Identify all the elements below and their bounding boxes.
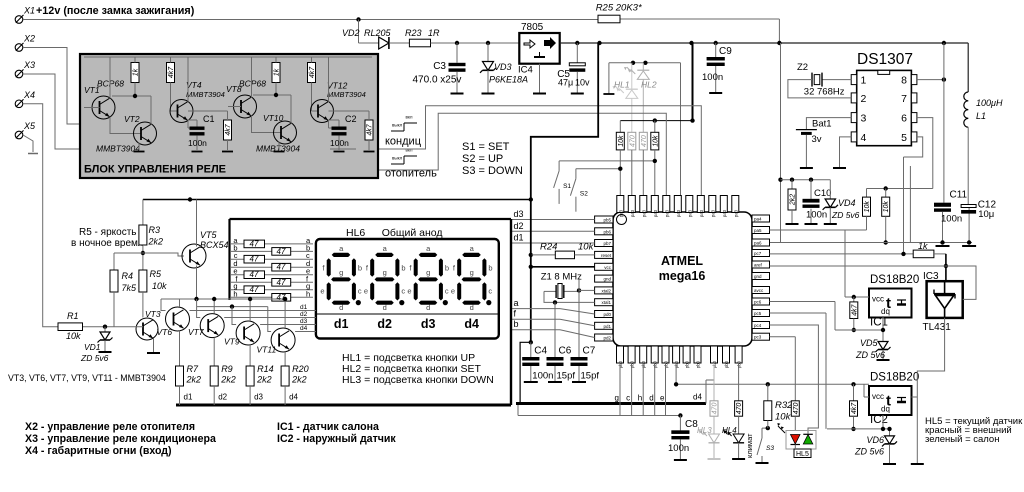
svg-text:C3: C3 bbox=[433, 61, 446, 72]
svg-text:vcc: vcc bbox=[604, 265, 612, 270]
svg-text:IC2: IC2 bbox=[870, 414, 888, 426]
svg-text:h: h bbox=[233, 289, 237, 298]
svg-text:S1: S1 bbox=[563, 183, 571, 190]
svg-text:10k: 10k bbox=[864, 201, 871, 213]
svg-text:10k: 10k bbox=[618, 135, 625, 147]
svg-text:pa3: pa3 bbox=[618, 209, 623, 217]
svg-text:1k: 1k bbox=[274, 68, 281, 76]
svg-text:d1: d1 bbox=[300, 304, 308, 311]
svg-text:кондиц: кондиц bbox=[385, 136, 422, 148]
svg-text:5: 5 bbox=[901, 132, 907, 144]
svg-text:g: g bbox=[383, 268, 387, 277]
svg-text:47: 47 bbox=[250, 270, 259, 279]
svg-text:VT7: VT7 bbox=[188, 327, 204, 337]
svg-text:Bat1: Bat1 bbox=[812, 119, 832, 130]
svg-text:VD6: VD6 bbox=[866, 435, 884, 445]
svg-text:10k: 10k bbox=[775, 412, 792, 423]
svg-text:R25 20K3*: R25 20K3* bbox=[596, 3, 642, 14]
svg-text:BCP68: BCP68 bbox=[239, 79, 266, 89]
svg-text:HL2: HL2 bbox=[641, 80, 657, 90]
svg-text:2k2: 2k2 bbox=[291, 375, 307, 385]
svg-text:e: e bbox=[660, 394, 665, 403]
svg-text:100μH: 100μH bbox=[976, 98, 1003, 108]
svg-text:VT6: VT6 bbox=[157, 327, 173, 337]
svg-text:R7: R7 bbox=[187, 364, 199, 374]
svg-text:3: 3 bbox=[861, 113, 867, 125]
svg-text:470.0 x25v: 470.0 x25v bbox=[413, 75, 462, 86]
svg-text:MMBT3904: MMBT3904 bbox=[186, 90, 225, 99]
svg-text:R32: R32 bbox=[775, 400, 793, 411]
svg-text:ZD 5v6: ZD 5v6 bbox=[831, 210, 860, 220]
svg-text:VT10: VT10 bbox=[263, 113, 284, 123]
svg-text:3v: 3v bbox=[812, 134, 822, 145]
svg-text:R24: R24 bbox=[540, 242, 557, 253]
svg-text:IC2 - наружный датчик: IC2 - наружный датчик bbox=[277, 433, 396, 445]
svg-text:g: g bbox=[339, 268, 343, 277]
svg-text:выкл: выкл bbox=[392, 156, 403, 161]
svg-text:IC1 - датчик салона: IC1 - датчик салона bbox=[277, 421, 379, 433]
svg-text:1R: 1R bbox=[428, 28, 440, 38]
svg-text:pa3: pa3 bbox=[733, 209, 738, 217]
svg-text:gnd: gnd bbox=[603, 277, 611, 282]
svg-text:C7: C7 bbox=[583, 346, 596, 357]
svg-text:6: 6 bbox=[901, 113, 907, 125]
svg-text:pa3: pa3 bbox=[699, 209, 704, 217]
svg-text:xtal2: xtal2 bbox=[601, 288, 611, 293]
svg-text:pc4: pc4 bbox=[754, 323, 762, 328]
svg-text:b: b bbox=[514, 319, 519, 329]
svg-text:HL3: HL3 bbox=[697, 426, 712, 435]
svg-text:Z2: Z2 bbox=[797, 62, 808, 73]
svg-text:d: d bbox=[383, 303, 387, 312]
svg-text:d3: d3 bbox=[254, 393, 263, 402]
svg-text:47: 47 bbox=[277, 278, 286, 287]
svg-text:pc7: pc7 bbox=[754, 251, 762, 256]
svg-text:VD4: VD4 bbox=[838, 198, 856, 208]
svg-text:VT9: VT9 bbox=[224, 337, 240, 347]
svg-text:C6: C6 bbox=[559, 346, 572, 357]
svg-text:d2: d2 bbox=[218, 393, 227, 402]
svg-text:4k7: 4k7 bbox=[851, 303, 858, 315]
svg-text:4k7: 4k7 bbox=[168, 66, 175, 78]
svg-text:R14: R14 bbox=[257, 364, 274, 374]
svg-text:100n: 100n bbox=[668, 443, 689, 454]
svg-text:L1: L1 bbox=[976, 111, 986, 121]
svg-text:в ночное время: в ночное время bbox=[71, 238, 143, 249]
svg-text:вкл: вкл bbox=[406, 115, 413, 120]
svg-text:e: e bbox=[451, 287, 455, 296]
svg-text:pd0: pd0 bbox=[603, 312, 611, 317]
svg-text:dq: dq bbox=[881, 405, 890, 414]
svg-text:g: g bbox=[426, 268, 430, 277]
svg-text:15pf: 15pf bbox=[557, 371, 576, 382]
svg-text:pa3: pa3 bbox=[664, 209, 669, 217]
svg-text:S1 = SET: S1 = SET bbox=[462, 141, 510, 153]
svg-text:VD2: VD2 bbox=[342, 28, 360, 38]
svg-text:47: 47 bbox=[250, 255, 259, 264]
svg-text:BCP68: BCP68 bbox=[97, 79, 124, 89]
svg-text:pb0: pb0 bbox=[685, 360, 690, 368]
svg-text:ZD 5v6: ZD 5v6 bbox=[854, 447, 884, 457]
svg-text:R4: R4 bbox=[122, 271, 134, 281]
svg-text:10k: 10k bbox=[66, 331, 81, 341]
svg-text:DS18B20: DS18B20 bbox=[870, 372, 919, 384]
svg-text:d: d bbox=[426, 303, 430, 312]
svg-text:47: 47 bbox=[250, 285, 259, 294]
svg-text:VT11: VT11 bbox=[257, 345, 277, 355]
svg-text:4k7: 4k7 bbox=[367, 123, 374, 135]
svg-text:aref: aref bbox=[754, 263, 763, 268]
svg-text:X3: X3 bbox=[23, 60, 35, 70]
svg-text:S3 = DOWN: S3 = DOWN bbox=[462, 165, 523, 177]
svg-text:pa3: pa3 bbox=[641, 209, 646, 217]
svg-text:2k2: 2k2 bbox=[256, 375, 272, 385]
svg-text:R5: R5 bbox=[150, 269, 162, 279]
svg-text:e: e bbox=[320, 287, 324, 296]
svg-text:10k: 10k bbox=[652, 135, 659, 147]
svg-text:vcc: vcc bbox=[872, 392, 884, 401]
svg-text:ZD 5v6: ZD 5v6 bbox=[855, 350, 885, 360]
svg-text:e: e bbox=[407, 287, 411, 296]
svg-text:d: d bbox=[470, 303, 474, 312]
svg-text:47: 47 bbox=[277, 263, 286, 272]
svg-text:d2: d2 bbox=[514, 221, 524, 231]
svg-text:2k2: 2k2 bbox=[220, 375, 236, 385]
svg-text:mega16: mega16 bbox=[659, 269, 706, 283]
svg-text:VD1: VD1 bbox=[84, 342, 101, 352]
svg-text:Z1 8 MHz: Z1 8 MHz bbox=[541, 272, 582, 283]
svg-text:R3: R3 bbox=[149, 225, 161, 235]
svg-text:c: c bbox=[626, 394, 630, 403]
svg-text:d: d bbox=[649, 394, 653, 403]
svg-text:b: b bbox=[358, 264, 362, 273]
svg-text:b: b bbox=[401, 264, 405, 273]
svg-text:VT12: VT12 bbox=[327, 81, 348, 91]
svg-text:c: c bbox=[401, 287, 405, 296]
svg-text:15pf: 15pf bbox=[581, 371, 600, 382]
svg-text:C1: C1 bbox=[203, 114, 215, 124]
svg-text:2k2: 2k2 bbox=[148, 237, 164, 247]
svg-text:pa4: pa4 bbox=[754, 217, 762, 222]
svg-text:pd1: pd1 bbox=[603, 324, 611, 329]
svg-text:pb0: pb0 bbox=[696, 360, 701, 368]
svg-text:BCX54: BCX54 bbox=[200, 240, 229, 250]
svg-text:DS1307: DS1307 bbox=[857, 51, 913, 68]
svg-text:4k7: 4k7 bbox=[851, 402, 858, 414]
svg-text:C10: C10 bbox=[814, 188, 831, 199]
svg-text:d1: d1 bbox=[184, 393, 193, 402]
svg-text:RL205: RL205 bbox=[364, 28, 392, 38]
svg-text:вкл: вкл bbox=[406, 148, 413, 153]
svg-text:1k: 1k bbox=[918, 241, 928, 251]
svg-text:c: c bbox=[488, 287, 492, 296]
svg-text:HL6: HL6 bbox=[346, 227, 365, 239]
svg-text:ZD 5v6: ZD 5v6 bbox=[80, 353, 109, 363]
svg-text:VT3, VT6, VT7, VT9, VT11 - MMB: VT3, VT6, VT7, VT9, VT11 - MMBT3904 bbox=[8, 373, 166, 383]
svg-text:470: 470 bbox=[736, 403, 743, 415]
svg-text:1: 1 bbox=[861, 75, 867, 87]
svg-text:100n: 100n bbox=[702, 72, 723, 83]
svg-text:X1: X1 bbox=[23, 6, 35, 16]
svg-text:C4: C4 bbox=[534, 346, 547, 357]
svg-text:100n: 100n bbox=[330, 138, 349, 148]
svg-text:pa3: pa3 bbox=[676, 209, 681, 217]
svg-text:HL1: HL1 bbox=[614, 80, 630, 90]
svg-text:b: b bbox=[488, 264, 492, 273]
svg-text:d4: d4 bbox=[300, 325, 308, 332]
svg-text:pb5: pb5 bbox=[603, 218, 611, 223]
svg-text:47: 47 bbox=[277, 247, 286, 256]
svg-text:VD3: VD3 bbox=[494, 62, 512, 72]
svg-text:d3: d3 bbox=[421, 317, 436, 331]
svg-text:d3: d3 bbox=[514, 209, 524, 219]
svg-text:pb0: pb0 bbox=[724, 360, 729, 368]
svg-text:pa3: pa3 bbox=[653, 209, 658, 217]
svg-text:10μ: 10μ bbox=[978, 209, 994, 220]
svg-text:R23: R23 bbox=[405, 28, 422, 38]
svg-text:IC3: IC3 bbox=[923, 271, 939, 282]
svg-text:ATMEL: ATMEL bbox=[661, 254, 703, 268]
svg-text:100n: 100n bbox=[532, 371, 553, 382]
svg-text:X2 - управление реле отопителя: X2 - управление реле отопителя bbox=[25, 421, 195, 433]
svg-text:выкл: выкл bbox=[392, 123, 403, 128]
svg-text:10v: 10v bbox=[575, 78, 590, 88]
svg-text:c: c bbox=[445, 287, 449, 296]
svg-text:7: 7 bbox=[901, 93, 907, 105]
svg-text:d4: d4 bbox=[693, 393, 702, 402]
svg-text:pd2: pd2 bbox=[603, 336, 611, 341]
svg-text:47: 47 bbox=[250, 239, 259, 248]
svg-text:X2: X2 bbox=[23, 34, 35, 44]
svg-text:MMBT3904: MMBT3904 bbox=[327, 90, 366, 99]
svg-text:c: c bbox=[358, 287, 362, 296]
svg-text:pa5: pa5 bbox=[754, 228, 762, 233]
svg-text:Общий анод: Общий анод bbox=[382, 227, 443, 239]
svg-text:X4 - габаритные огни (вход): X4 - габаритные огни (вход) bbox=[25, 445, 172, 457]
svg-text:47μ: 47μ bbox=[558, 78, 573, 88]
svg-text:d4: d4 bbox=[289, 393, 298, 402]
svg-text:C9: C9 bbox=[719, 46, 732, 57]
svg-text:pa3: pa3 bbox=[687, 209, 692, 217]
svg-text:IC1: IC1 bbox=[870, 317, 888, 329]
svg-text:+12v (после замка зажигания): +12v (после замка зажигания) bbox=[36, 5, 195, 17]
svg-text:32 768Hz: 32 768Hz bbox=[804, 87, 845, 98]
svg-text:4k7: 4k7 bbox=[309, 66, 316, 78]
svg-text:C11: C11 bbox=[950, 190, 968, 201]
svg-text:e: e bbox=[364, 287, 368, 296]
svg-text:2k2: 2k2 bbox=[790, 194, 797, 206]
svg-text:pa3: pa3 bbox=[722, 209, 727, 217]
svg-text:pb7: pb7 bbox=[603, 241, 611, 246]
svg-text:2k2: 2k2 bbox=[186, 375, 202, 385]
svg-text:DS18B20: DS18B20 bbox=[870, 274, 919, 286]
svg-text:БЛОК УПРАВЛЕНИЯ РЕЛЕ: БЛОК УПРАВЛЕНИЯ РЕЛЕ bbox=[84, 164, 226, 176]
svg-text:d3: d3 bbox=[300, 318, 308, 325]
svg-text:d: d bbox=[339, 303, 343, 312]
svg-text:470: 470 bbox=[629, 135, 636, 147]
svg-text:avcc: avcc bbox=[754, 288, 764, 293]
svg-text:pc5: pc5 bbox=[754, 311, 762, 316]
svg-text:100n: 100n bbox=[188, 138, 207, 148]
svg-text:S2: S2 bbox=[580, 191, 588, 198]
svg-text:xtal1: xtal1 bbox=[601, 300, 611, 305]
svg-text:b: b bbox=[445, 264, 449, 273]
svg-text:pb6: pb6 bbox=[603, 229, 611, 234]
svg-text:HL5: HL5 bbox=[796, 451, 809, 458]
svg-text:10k: 10k bbox=[883, 201, 890, 213]
svg-text:pa3: pa3 bbox=[630, 209, 635, 217]
svg-text:X4: X4 bbox=[23, 90, 35, 100]
svg-text:X5: X5 bbox=[23, 121, 36, 131]
svg-text:8: 8 bbox=[901, 75, 907, 87]
svg-text:100n: 100n bbox=[806, 210, 827, 221]
svg-text:TL431: TL431 bbox=[923, 322, 952, 333]
svg-text:g: g bbox=[470, 268, 474, 277]
svg-text:g: g bbox=[615, 394, 619, 403]
svg-text:pc3: pc3 bbox=[754, 335, 762, 340]
svg-text:d1: d1 bbox=[514, 233, 524, 243]
svg-text:d2: d2 bbox=[377, 317, 392, 331]
svg-text:h: h bbox=[638, 394, 642, 403]
svg-text:h: h bbox=[306, 289, 310, 298]
svg-text:X3 - управление реле кондицион: X3 - управление реле кондиционера bbox=[25, 433, 216, 445]
svg-text:P6KE18A: P6KE18A bbox=[489, 75, 528, 85]
svg-text:d4: d4 bbox=[464, 317, 479, 331]
svg-text:100n: 100n bbox=[941, 214, 962, 225]
svg-text:HL4: HL4 bbox=[722, 426, 737, 435]
svg-text:pa3: pa3 bbox=[710, 209, 715, 217]
svg-text:IC4: IC4 bbox=[518, 65, 533, 76]
svg-text:R5 - яркость: R5 - яркость bbox=[79, 227, 137, 238]
svg-text:HL3 = подсветка кнопки DOWN: HL3 = подсветка кнопки DOWN bbox=[342, 374, 494, 386]
svg-text:7805: 7805 bbox=[521, 22, 544, 33]
svg-text:reset: reset bbox=[601, 253, 612, 258]
svg-text:d2: d2 bbox=[300, 311, 308, 318]
svg-text:климат: климат bbox=[745, 433, 754, 458]
svg-text:vcc: vcc bbox=[872, 295, 884, 304]
svg-text:4: 4 bbox=[861, 132, 867, 144]
svg-text:R9: R9 bbox=[221, 364, 233, 374]
svg-text:VT5: VT5 bbox=[200, 230, 218, 240]
svg-text:4k7: 4k7 bbox=[225, 123, 232, 135]
svg-text:dq: dq bbox=[881, 307, 890, 316]
svg-text:2: 2 bbox=[861, 93, 867, 105]
svg-text:470: 470 bbox=[793, 403, 800, 415]
svg-text:VT2: VT2 bbox=[124, 114, 140, 124]
svg-text:отопитель: отопитель bbox=[385, 168, 437, 180]
svg-text:pa6: pa6 bbox=[754, 241, 762, 246]
svg-text:10k: 10k bbox=[152, 281, 167, 291]
svg-text:S2 = UP: S2 = UP bbox=[462, 153, 503, 165]
svg-text:470: 470 bbox=[641, 135, 648, 147]
svg-text:VT3: VT3 bbox=[145, 309, 161, 319]
svg-text:R20: R20 bbox=[292, 364, 309, 374]
svg-text:C2: C2 bbox=[345, 114, 357, 124]
svg-text:pc6: pc6 bbox=[754, 300, 762, 305]
svg-text:gnd: gnd bbox=[754, 274, 762, 279]
svg-text:10k: 10k bbox=[578, 242, 595, 253]
svg-text:a: a bbox=[514, 298, 519, 308]
svg-text:1k: 1k bbox=[133, 68, 140, 76]
svg-text:S3: S3 bbox=[766, 445, 774, 452]
svg-text:зеленый = салон: зеленый = салон bbox=[925, 434, 999, 445]
svg-text:VD5: VD5 bbox=[860, 338, 879, 348]
svg-text:d1: d1 bbox=[334, 317, 349, 331]
svg-text:470: 470 bbox=[712, 403, 719, 415]
svg-text:R1: R1 bbox=[67, 311, 79, 321]
svg-text:7k5: 7k5 bbox=[122, 283, 138, 293]
